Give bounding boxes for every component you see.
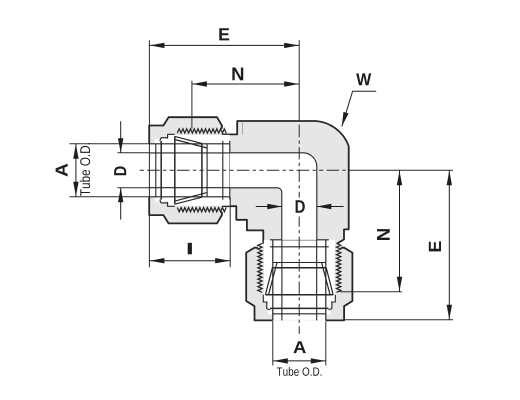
label N top	[232, 67, 243, 80]
body outline staircase	[221, 206, 264, 244]
leader W	[342, 91, 376, 126]
dimension D left	[120, 121, 122, 219]
bore channel outer line	[230, 153, 317, 240]
dimension N right	[399, 170, 401, 291]
label I	[188, 243, 192, 255]
bore channel	[230, 153, 317, 240]
extension lines bottom A	[273, 321, 326, 365]
label A left	[56, 164, 68, 177]
extension lines left D	[118, 153, 150, 188]
label N right	[377, 229, 390, 240]
label Tube O.D. bottom	[277, 367, 322, 376]
dimension A bottom	[273, 360, 326, 362]
dimension N top	[192, 83, 299, 85]
extension line right horizontal (centerline ext)	[352, 169, 453, 171]
dimension E top	[149, 44, 299, 46]
bore channel inner line	[230, 188, 282, 240]
dimension D middle	[256, 206, 344, 208]
extension lines left A	[70, 144, 150, 197]
dimension E right	[448, 170, 450, 319]
extension line nut face / I left	[148, 40, 150, 267]
extension line right N bottom	[340, 291, 402, 293]
centerline horizontal	[140, 169, 352, 171]
extension line N top	[191, 81, 193, 129]
extension line I right	[229, 197, 231, 267]
label E right	[429, 241, 441, 251]
bottom port nut N2	[246, 240, 352, 321]
extension line vertical centerline top	[298, 40, 300, 121]
centerline vertical	[298, 125, 300, 334]
label E top	[219, 28, 229, 40]
label W	[356, 73, 371, 85]
extension line right E bottom	[343, 319, 453, 321]
dimension I bottom left	[149, 260, 230, 262]
body hex corner line	[242, 122, 244, 135]
white pad under D label	[293, 198, 306, 217]
label Tube O.D. left	[80, 143, 90, 196]
label D left	[114, 166, 126, 175]
left port nut N1	[149, 117, 230, 223]
dimension A left	[75, 144, 77, 197]
elbow body U1	[178, 121, 349, 292]
label A bottom	[293, 341, 305, 353]
body outline upper	[221, 121, 349, 244]
label D middle	[296, 200, 305, 213]
